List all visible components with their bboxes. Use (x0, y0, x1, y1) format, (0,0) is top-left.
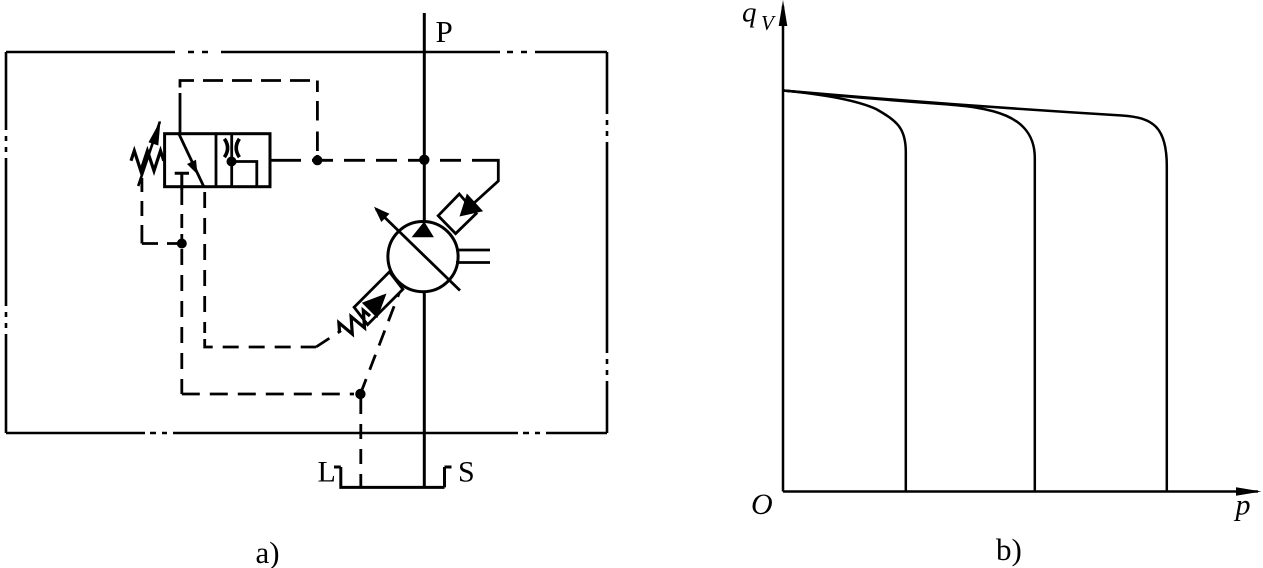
valve V1 blocked port symbol T (175, 173, 189, 190)
enclosure border left (chain line) (5, 52, 8, 433)
control line from valve to counter spring (dashed) (203, 192, 206, 333)
line P (pressure line, vertical) (423, 13, 426, 487)
svg-text:O: O (751, 488, 773, 521)
enclosure border bottom (chain line) (6, 432, 607, 435)
stroking cylinder box (upper right actuator) (438, 194, 476, 234)
valve V1 adjustment arrow (138, 122, 160, 187)
valve V1 position divider (215, 134, 218, 187)
counter spring zigzag (339, 310, 370, 334)
junction node at drain header (355, 389, 365, 399)
valve V1 throttle arcs (224, 139, 239, 157)
svg-text:L: L (318, 456, 336, 489)
valve V1 adjustable spring (131, 151, 164, 171)
junction node on drain line (177, 239, 187, 249)
curve 2 (middle pressure setting) (783, 91, 1035, 492)
pump U1 drive shaft lines (456, 250, 490, 263)
pump U1 variable arrow (diagonal through circle) (376, 209, 460, 291)
port bracket L S (334, 467, 452, 487)
pilot line top loop (dashed) (180, 81, 317, 157)
junction node on line P (419, 155, 429, 165)
counter spring cylinder box (lower left actuator) (354, 272, 403, 325)
graph x-axis (783, 490, 1258, 493)
svg-text:S: S (458, 456, 475, 489)
svg-text:P: P (436, 14, 453, 49)
control line elbow to stroking cylinder (solid) (474, 160, 499, 203)
junction node at top loop and sensing line (312, 155, 322, 165)
svg-text:a): a) (256, 535, 280, 568)
pilot sensing line from valve to P (solid then dashed) (270, 159, 301, 162)
svg-text:b): b) (996, 532, 1022, 567)
pump U1 circle (variable displacement pump) (388, 222, 458, 292)
pump U1 outlet triangle (412, 222, 434, 238)
svg-text:p: p (1234, 489, 1251, 522)
drain header (dashed horizontal) (182, 393, 354, 396)
graph y-axis (782, 6, 785, 492)
drain branch from cylinder (dashed diagonal) (360, 294, 399, 395)
drain line from valve port T (dashed) (180, 190, 183, 239)
counter spring cylinder arrow (filled, pointing to pump) (362, 294, 387, 319)
valve V1 left position flow arrow (diagonal) (179, 135, 204, 188)
valve V1 body (pressure compensator, 2-position) (165, 134, 270, 187)
svg-text:V: V (761, 11, 776, 35)
stroking cylinder arrow (filled, pointing to pump) (460, 194, 484, 217)
valve V1 right position throttle path (230, 134, 233, 187)
drain line to port L (dashed) (359, 399, 362, 486)
pilot drain line from valve spring side (dashed L) (142, 178, 177, 244)
curve 3 (highest pressure setting) (783, 91, 1167, 492)
enclosure border top (chain line) (6, 51, 607, 54)
curve 1 (smallest pressure setting) (783, 91, 906, 492)
valve V1 elbow path in right position (232, 162, 257, 187)
valve V1 junction dot inside right position (227, 157, 237, 167)
svg-text:q: q (742, 0, 757, 29)
enclosure border right (chain line) (606, 52, 609, 433)
